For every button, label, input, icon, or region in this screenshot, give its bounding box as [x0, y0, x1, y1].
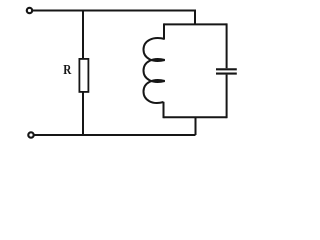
wire capacitor bottom lead [226, 75, 228, 119]
wire resistor bottom lead [82, 92, 84, 135]
wire capacitor top lead [226, 23, 228, 68]
resistor R [79, 59, 88, 92]
wire bottom horizontal [34, 134, 196, 136]
capacitor C top plate [216, 68, 237, 70]
inductor L turn 3 [144, 80, 165, 103]
wire resistor top lead [82, 11, 84, 60]
wire tank output drop [195, 117, 197, 135]
wire tank top rail [164, 23, 227, 25]
wire inductor bottom stub [163, 102, 165, 118]
inductor L turn 2 [144, 59, 165, 82]
wire top horizontal with corner drop [32, 11, 195, 25]
inductor L turn 1 [144, 38, 165, 61]
wire inductor top stub [163, 23, 165, 39]
capacitor C bottom plate [216, 73, 237, 75]
terminal top-left [27, 8, 32, 13]
terminal bottom-left [28, 132, 33, 137]
svg-text:R: R [63, 62, 72, 77]
wire tank bottom rail [164, 116, 227, 118]
